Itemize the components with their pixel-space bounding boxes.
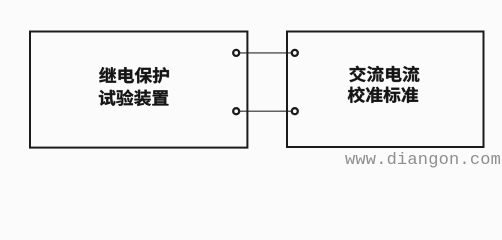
terminal T4 (right box, bottom input) bbox=[292, 108, 298, 114]
svg-text:www.diangon.com: www.diangon.com bbox=[345, 151, 501, 170]
label line: 校准标准 (calibration standard) bbox=[348, 87, 418, 103]
terminal T1 (left box, top output) bbox=[233, 50, 239, 56]
wire top bbox=[236, 52, 295, 54]
terminal T3 (left box, bottom output) bbox=[233, 108, 239, 114]
label line: 交流电流 (AC current) bbox=[349, 66, 419, 82]
label line: 试验装置 (test device) bbox=[99, 90, 168, 106]
wire bottom bbox=[236, 110, 295, 112]
label line: 继电保护 (relay protection) bbox=[99, 67, 169, 83]
terminal T2 (right box, top input) bbox=[292, 50, 298, 56]
left box U1: relay protection test device bbox=[30, 32, 247, 148]
right box U2: AC current calibration standard bbox=[287, 32, 484, 148]
